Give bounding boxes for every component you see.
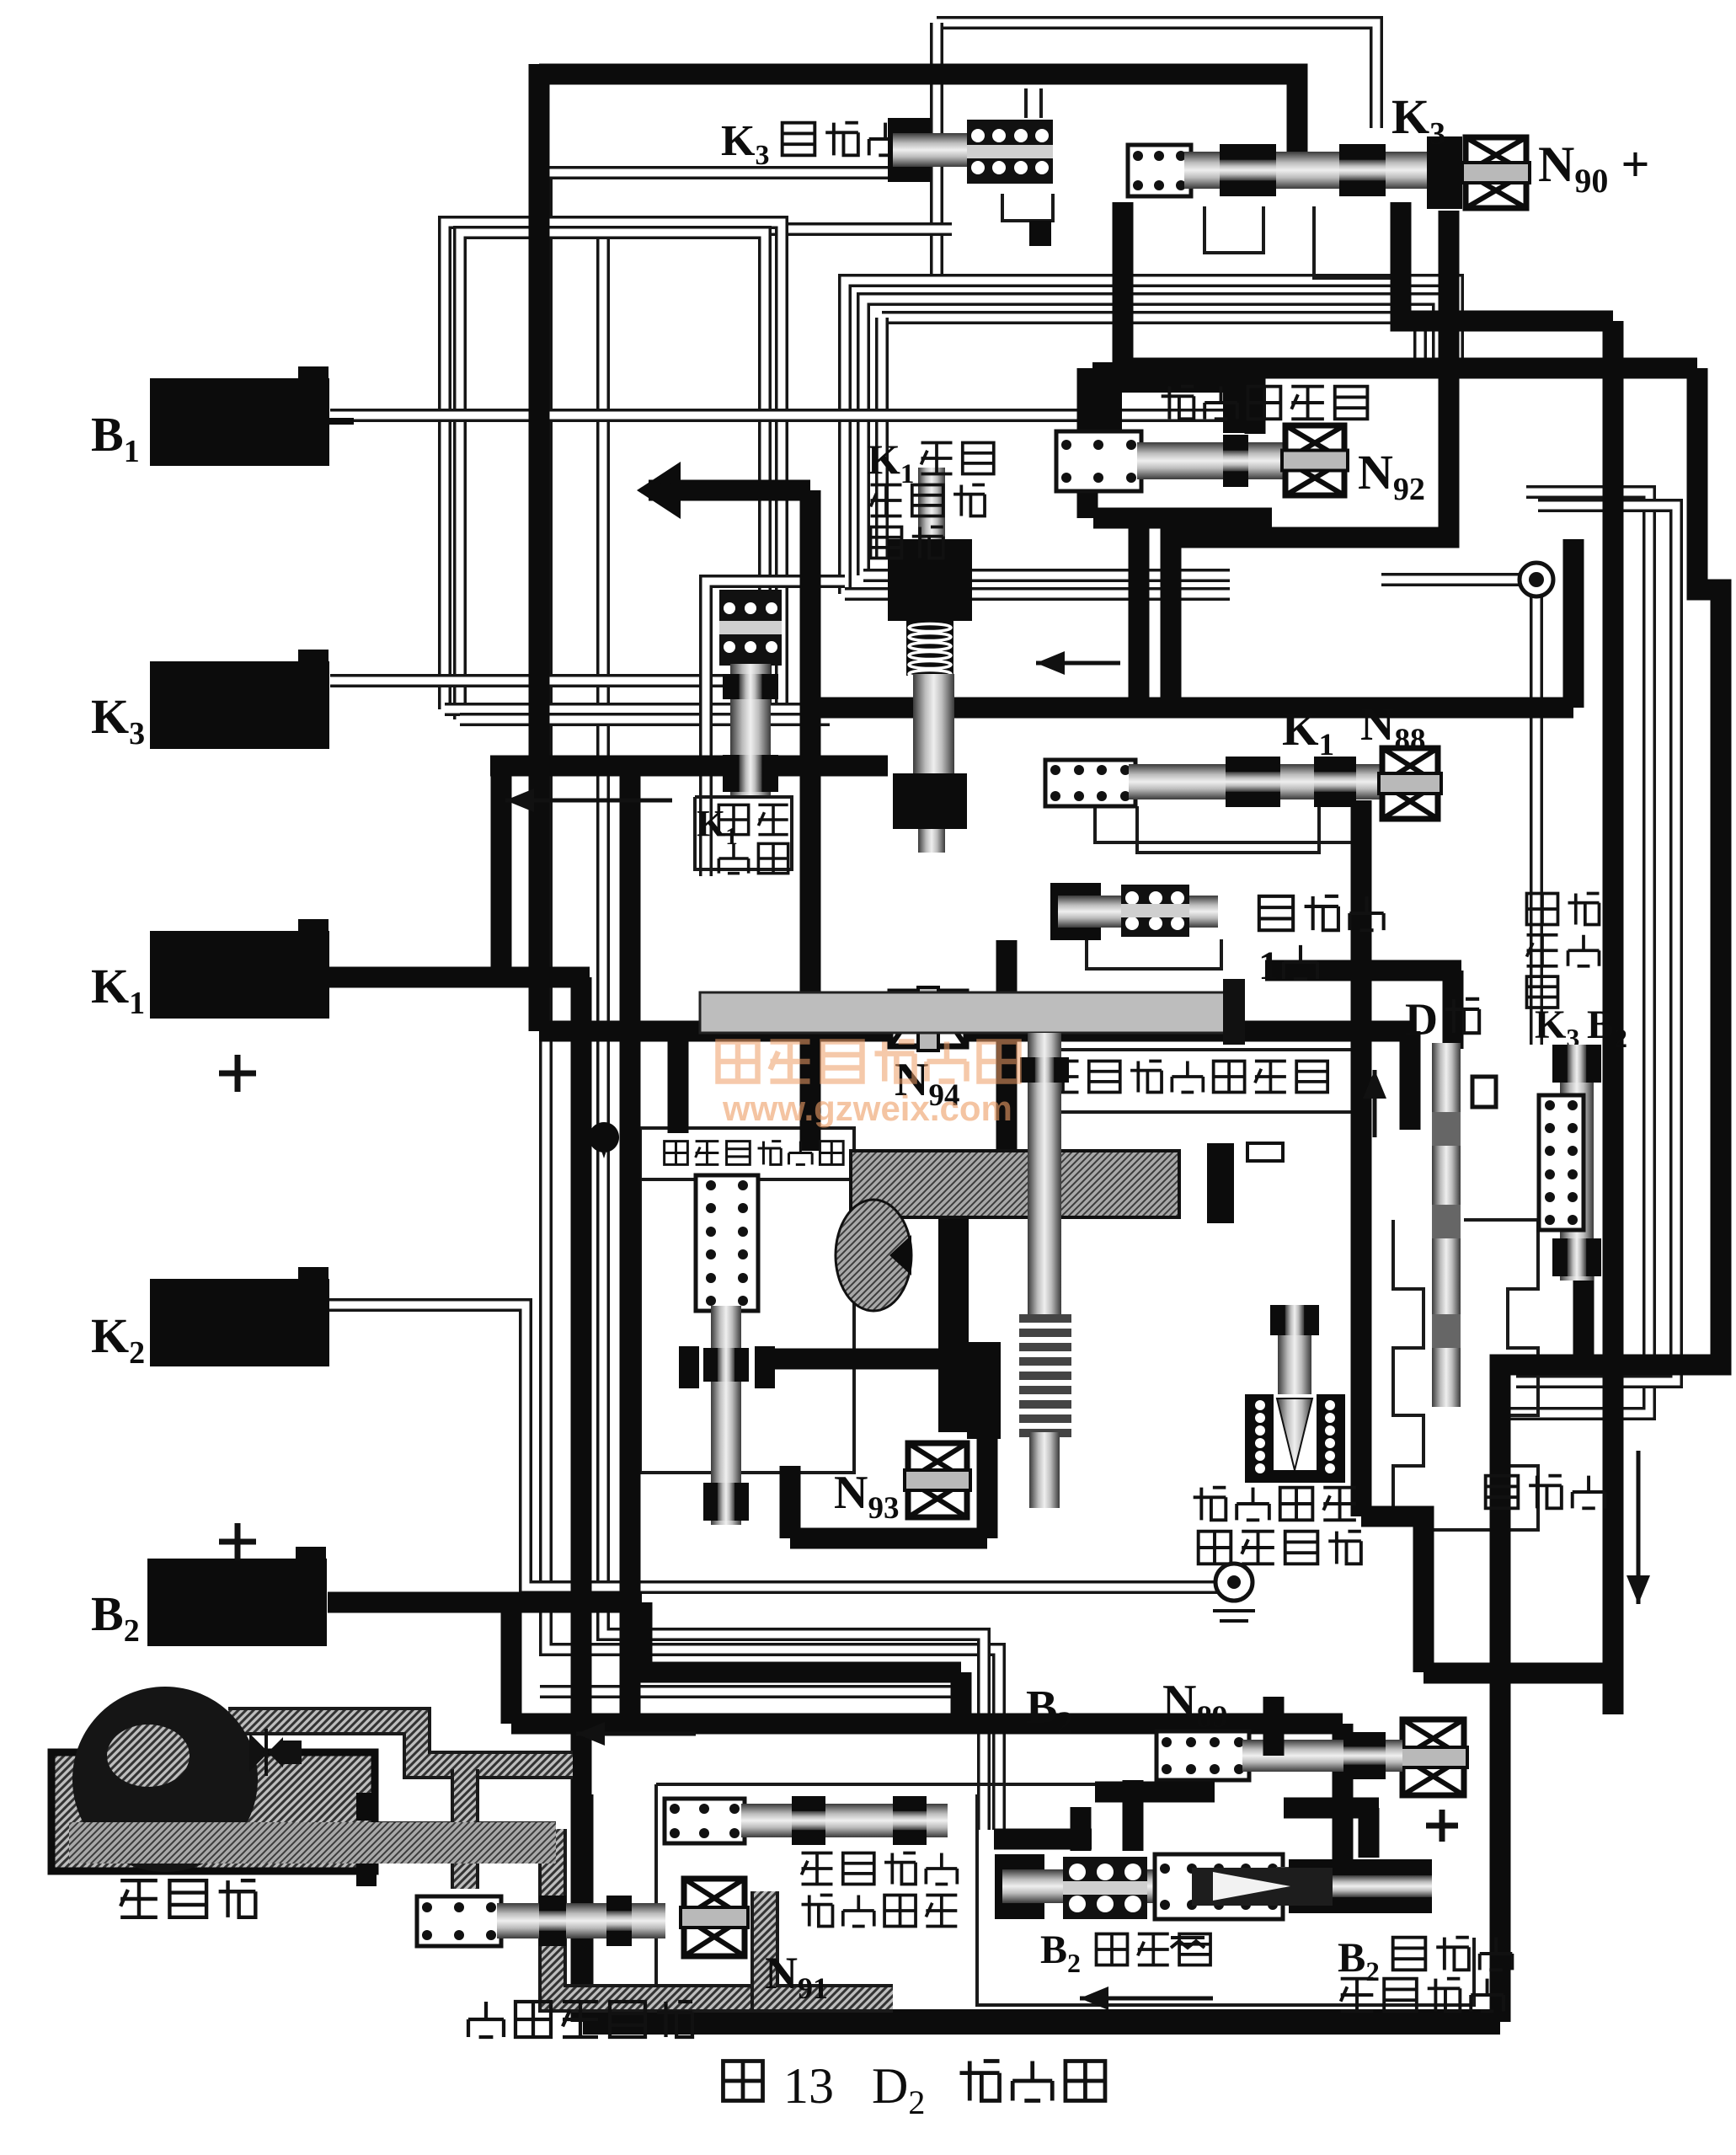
valve K1-supply body	[888, 468, 972, 853]
clutch K1 block	[150, 919, 329, 1019]
pipe B2s left V	[1123, 1780, 1144, 1851]
solenoid N88	[1379, 748, 1441, 819]
svg-text:13: 13	[783, 2058, 834, 2114]
valve mainpress bracketR	[755, 1346, 775, 1388]
pipe right trunk T2	[1500, 368, 1721, 1432]
svg-text:D: D	[1405, 994, 1438, 1045]
label K1 valve	[1282, 703, 1334, 762]
label N93	[834, 1467, 899, 1526]
shift staple block	[1092, 362, 1255, 433]
valve B2-coord plate	[1063, 1857, 1147, 1919]
label B2s l2	[1341, 1979, 1504, 2012]
label K1 supply text r1	[921, 443, 994, 474]
pipe nested frame 1	[937, 23, 1376, 128]
clutch B1 block	[150, 366, 329, 466]
pipe secondary band2	[967, 1342, 1001, 1439]
label K1 supply text r3	[871, 527, 943, 559]
pipe nested frame 4b	[875, 318, 889, 559]
label B2 block	[91, 1586, 140, 1649]
pipe from K3 coord valve left	[546, 173, 999, 1830]
K3 spool body outline2	[1314, 206, 1398, 278]
label B2s l1a	[1338, 1933, 1380, 1987]
plus under K1	[219, 1055, 256, 1092]
label torque converter	[120, 1880, 255, 1917]
clutch B2 block	[147, 1547, 327, 1646]
manual valve shaft	[1432, 1043, 1461, 1407]
label tcpress l2	[802, 1896, 958, 1927]
label sol-press l1	[1194, 1488, 1356, 1521]
pipe manual feed	[1361, 1516, 1424, 1672]
pipe lower thin rail	[540, 1685, 969, 1698]
caption D2	[872, 2058, 925, 2121]
valve tcpress spool	[741, 1796, 948, 1845]
arrow down manual	[1626, 1451, 1650, 1604]
label N89	[1162, 1676, 1227, 1735]
pipe nested frame bottom2	[863, 569, 1230, 582]
pipe nested frame 2	[845, 281, 1457, 594]
valve K3-coord plate	[967, 120, 1053, 184]
valve mainpress spring	[696, 1175, 758, 1311]
B2s spool dark	[1192, 1868, 1333, 1906]
pipe K3 block line	[330, 674, 765, 687]
pipe long vert 731	[620, 756, 641, 1724]
pipe bottom frame	[583, 2009, 1500, 2035]
pipe shift U right leg	[1245, 368, 1266, 434]
pipe D drop	[1443, 971, 1464, 1049]
valve secondary lower	[1029, 1432, 1060, 1508]
pipe main-valve feed	[668, 1031, 689, 1133]
label K1-coord r1	[718, 805, 788, 834]
pipe N93 meander left	[780, 1466, 801, 1538]
watermark line1	[718, 1041, 1018, 1081]
pipe B1 line	[330, 409, 1261, 422]
label D-pos	[1405, 994, 1438, 1045]
arrow bottom left	[576, 1722, 696, 1746]
clutch K3 block	[150, 650, 329, 749]
label anti41 line1	[1259, 896, 1384, 930]
pipe B2s meander V	[1359, 1808, 1380, 1858]
torque housing	[51, 1752, 375, 1871]
plus above B2	[219, 1523, 256, 1560]
label B2 near	[1026, 1682, 1073, 1741]
label high-gear col1	[1527, 894, 1558, 1008]
pipe right trunk T1	[1603, 321, 1624, 1714]
gray ellipse blob	[836, 1200, 911, 1311]
label K3 valve	[1391, 89, 1445, 152]
valve shift spool	[1137, 435, 1289, 487]
valve secondary bar	[1207, 1143, 1234, 1223]
torque bottom dark band	[69, 1822, 556, 1864]
label sol-press l2	[1199, 1532, 1361, 1564]
bottom assy frame	[656, 1784, 969, 2015]
valve K1-coord plate	[719, 590, 782, 666]
arrow left mid	[505, 789, 672, 812]
solenoid N94	[890, 987, 966, 1051]
arrow bottom B2	[1080, 1987, 1213, 2010]
valve K3-coord stem2	[1039, 88, 1043, 118]
pipe high-gear drop	[1573, 1264, 1594, 1365]
gray rail tick	[1223, 979, 1245, 1045]
pipe mid rail	[539, 1021, 1410, 1042]
valve K3 spool	[1184, 144, 1432, 196]
label N92	[1358, 445, 1425, 507]
B2 valve body outline	[977, 1794, 1474, 2005]
pipe arrow drop	[800, 490, 821, 1151]
bottom assy frame2	[656, 1783, 1103, 1786]
teardrop node	[589, 1122, 619, 1158]
K1 spool body outline	[1095, 805, 1365, 842]
label K1 block	[91, 959, 145, 1021]
pipe B1 line 3	[460, 713, 830, 726]
pipe B2 bottom rail	[511, 1714, 1343, 1735]
hatch lockup frame	[553, 1829, 765, 1998]
pipe B2pilot drop	[1263, 1697, 1285, 1756]
caption tu	[723, 2061, 762, 2100]
label high-gear col2	[1568, 894, 1600, 966]
valve secondary spool	[1020, 1033, 1069, 1314]
valve anti41 spool	[1058, 896, 1218, 928]
valve high-gear spring	[1539, 1095, 1584, 1230]
pipe from K3 coord valve left 2	[603, 229, 984, 1830]
node ball	[1520, 563, 1553, 596]
label N94	[895, 1054, 959, 1113]
label N88	[1360, 698, 1425, 757]
pipe K3 right L	[1401, 202, 1613, 321]
solenoid N89	[1399, 1719, 1467, 1795]
anti-4-1 body outline	[1087, 939, 1221, 969]
pipe right riser A	[1504, 492, 1649, 1414]
main pressure label box	[640, 1128, 854, 1179]
pipe under anti41	[996, 940, 1018, 1151]
pipe top-left riser	[445, 222, 782, 709]
B2coord spring glyph	[1171, 1938, 1205, 1948]
valve anti41 blockL	[1050, 883, 1101, 940]
pipe B1 line 2	[445, 703, 830, 716]
label K3B2	[1535, 1003, 1579, 1053]
pipe right top rail	[1123, 358, 1697, 379]
plus under N89	[1426, 1810, 1458, 1842]
valve B2pilot spring box	[1156, 1731, 1249, 1780]
pipe top frame	[539, 74, 1297, 173]
pipe nested frame 1 left	[937, 23, 1151, 281]
pipe B2s left H	[1095, 1782, 1215, 1803]
valve B2-coord spool	[1002, 1869, 1162, 1903]
valve anti41 plate	[1121, 885, 1189, 937]
hatched band	[851, 1151, 1179, 1217]
valve B2s spool	[1276, 1859, 1432, 1913]
valve high-gear spool	[1552, 1045, 1601, 1281]
label K1ssv	[868, 436, 914, 489]
torque disc	[72, 1687, 258, 1872]
valve secondary cap	[1247, 1143, 1283, 1161]
arrowhead big left	[637, 462, 681, 519]
pipe N93 meander top	[756, 1359, 987, 1538]
pipe right riser B	[1516, 505, 1676, 1382]
watermark line2	[722, 1088, 1012, 1128]
label secondary valve	[1048, 1061, 1328, 1093]
valve K3 spring box	[1128, 145, 1191, 196]
pipe bottom frame left	[573, 1794, 594, 2022]
svg-text:www.gzweix.com: www.gzweix.com	[722, 1088, 1012, 1128]
valve B2s spring box	[1155, 1854, 1283, 1919]
torque disc inner	[107, 1725, 190, 1787]
pipe B1 tab	[329, 418, 354, 425]
pipe node down	[1530, 596, 1543, 1045]
label K1 supply text r2	[871, 485, 986, 516]
main pressure valve frame	[640, 1179, 854, 1473]
pipe mid rail drop	[1400, 1031, 1421, 1130]
pipe anti41 vert	[1351, 800, 1372, 1516]
torque tab2	[356, 1859, 377, 1886]
label tcpress l1	[802, 1853, 958, 1885]
label K3coord-K3	[721, 117, 769, 171]
pipe anti41 rail	[1265, 960, 1461, 981]
valve B2pilot spool	[1242, 1732, 1402, 1779]
pipe left trunk	[529, 64, 550, 1031]
valve K1-coord spool	[723, 664, 778, 795]
solenoid N93	[905, 1443, 970, 1517]
secondary label box	[1030, 1050, 1354, 1112]
label anti41 line2	[1284, 945, 1317, 979]
pipe B2 jog1	[642, 1602, 961, 1672]
valve K1 spring box	[1045, 760, 1135, 806]
valve lockup spring	[417, 1896, 501, 1946]
K1 body outline 2	[1137, 806, 1319, 853]
pipe top-left riser 2	[460, 233, 765, 719]
clutch K2 block	[150, 1267, 329, 1366]
pipe shift U left	[1077, 368, 1098, 518]
pipe K3 header	[490, 756, 888, 777]
label N91	[765, 1948, 828, 2005]
pipe B2 to valve	[1333, 1724, 1354, 1862]
pipe K3 valve drop	[1113, 202, 1134, 368]
pipe K1 block line	[329, 967, 590, 988]
valve K3-coord stem	[1024, 88, 1028, 118]
arrow up secondary	[1363, 1070, 1386, 1137]
manual valve outline	[1415, 1220, 1538, 1530]
pipe shift drop	[1129, 518, 1150, 708]
pipe B2 drop 607	[501, 1598, 522, 1724]
valve shift spring box	[1056, 431, 1141, 491]
pipe N93 meander bot	[790, 1528, 987, 1549]
pipe K1 jog	[571, 977, 592, 2022]
valve mainpress spool	[703, 1306, 749, 1525]
pipe arrow loop	[649, 480, 810, 501]
caption 13	[783, 2058, 834, 2114]
valve mainpress bracketL	[679, 1346, 699, 1388]
hatch torque out top	[228, 1721, 573, 1765]
label anti41 l2a	[1258, 944, 1279, 988]
valve K3 right block	[1427, 136, 1462, 209]
pipe K2 line	[329, 1305, 1217, 1587]
label B2coord	[1040, 1928, 1081, 1978]
label shift-smooth-valve text	[1162, 387, 1368, 420]
pipe nested frame 3	[863, 299, 1439, 575]
pipe nested frame 4	[882, 318, 1420, 362]
valve sol-press spool	[1270, 1305, 1319, 1479]
hatch N91 side	[765, 1938, 893, 1998]
valve sol-press cup	[1245, 1394, 1345, 1483]
label K3coord text	[783, 123, 902, 156]
valve K3-coord foot	[1029, 221, 1051, 246]
pipe B2coord H	[994, 1829, 1092, 1850]
K1 coord label box	[695, 797, 792, 869]
label K2 block	[91, 1308, 145, 1371]
label B2coord cjk	[1097, 1934, 1211, 1965]
svg-text:1: 1	[1258, 944, 1279, 988]
pipe B2s meander H	[1284, 1798, 1379, 1819]
pipe secondary band	[938, 1211, 969, 1432]
valve tcpress spring	[665, 1799, 745, 1843]
ball valve	[1213, 1564, 1255, 1621]
solenoid N90	[1462, 137, 1530, 208]
valve K3-coord spool	[893, 133, 977, 167]
pipe bottom frame right	[1490, 1432, 1511, 2022]
hatch torque out bottom	[76, 1821, 556, 1862]
D port square	[1472, 1077, 1496, 1107]
pipe main rail up	[1563, 539, 1584, 708]
torque tab1	[356, 1793, 377, 1821]
label main pressure valve	[665, 1142, 844, 1165]
pipe shift valve bottom	[1093, 508, 1272, 529]
label N90	[1538, 136, 1650, 200]
pipe K1coord frame	[706, 581, 845, 876]
label manual valve	[1486, 1476, 1605, 1509]
check valve bowtie	[251, 1729, 302, 1776]
pipe B2 block line	[328, 1592, 642, 1613]
label K3 block	[91, 689, 145, 751]
solenoid N92	[1282, 425, 1348, 495]
valve K3-coord housing	[888, 118, 931, 182]
manual valve outline2	[1393, 1220, 1424, 1516]
label B1	[91, 407, 140, 469]
caption dang-you-lu	[959, 2061, 1104, 2100]
label K3B2b	[1587, 1003, 1627, 1053]
pipe main rail y840	[810, 698, 1573, 719]
label D-pos cjk	[1445, 999, 1479, 1033]
pipe N90 drop	[1171, 211, 1449, 708]
hatch left vert	[451, 1769, 479, 1889]
pipe nested frame bottom	[845, 587, 1230, 601]
gray rail bar	[700, 992, 1242, 1033]
valve B2-coord blockL	[995, 1854, 1044, 1919]
label K1-coord r2	[718, 843, 788, 873]
valve K1 spool	[1129, 757, 1381, 807]
arrow left small	[1036, 651, 1120, 675]
solenoid N91	[681, 1879, 748, 1956]
valve secondary ribs	[1019, 1314, 1071, 1437]
pipe B2coord V	[1071, 1807, 1092, 1851]
label lockup clutch	[468, 2002, 692, 2037]
label B2s l1	[1393, 1938, 1513, 1971]
pipe manual out	[1424, 1663, 1623, 1684]
valve lockup spool	[497, 1896, 665, 1946]
pipe B2 jog2	[951, 1672, 972, 1724]
K3 coord body outline	[1002, 194, 1053, 221]
K3 spool body outline	[1205, 206, 1263, 253]
label K1coord	[697, 803, 738, 850]
pipe node drop	[1381, 573, 1522, 586]
pipe K3 header drop	[491, 756, 512, 977]
